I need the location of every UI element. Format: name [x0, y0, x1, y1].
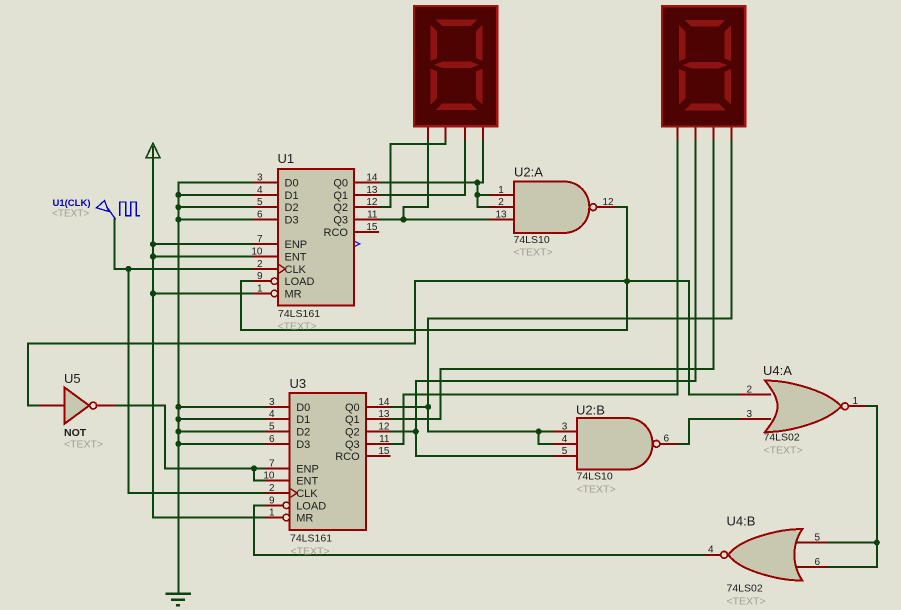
svg-text:11: 11 [379, 434, 390, 445]
svg-text:6: 6 [257, 210, 263, 221]
svg-text:6: 6 [664, 434, 670, 445]
svg-text:NOT: NOT [64, 427, 87, 439]
svg-text:MR: MR [285, 289, 302, 301]
svg-text:Q2: Q2 [333, 202, 348, 214]
svg-text:ENP: ENP [285, 239, 308, 251]
svg-text:2: 2 [269, 483, 275, 494]
svg-text:10: 10 [263, 471, 275, 482]
svg-text:13: 13 [495, 210, 507, 221]
svg-text:Q2: Q2 [345, 427, 360, 439]
svg-text:11: 11 [367, 210, 378, 221]
svg-text:D1: D1 [296, 414, 310, 426]
svg-text:5: 5 [814, 533, 820, 544]
svg-text:<TEXT>: <TEXT> [64, 439, 103, 451]
svg-text:74LS161: 74LS161 [290, 532, 332, 544]
svg-text:U1(CLK): U1(CLK) [53, 198, 91, 209]
svg-text:CLK: CLK [296, 488, 318, 500]
svg-text:4: 4 [269, 409, 275, 420]
svg-text:4: 4 [257, 185, 263, 196]
svg-text:3: 3 [562, 422, 568, 433]
svg-text:3: 3 [269, 397, 275, 408]
svg-text:D2: D2 [296, 427, 310, 439]
svg-text:74LS02: 74LS02 [727, 583, 763, 595]
svg-text:15: 15 [378, 446, 390, 457]
svg-text:12: 12 [378, 422, 390, 433]
svg-text:1: 1 [269, 508, 275, 519]
svg-text:<TEXT>: <TEXT> [278, 321, 317, 333]
svg-text:12: 12 [603, 197, 615, 208]
svg-text:7: 7 [269, 458, 275, 469]
svg-text:U5: U5 [64, 371, 81, 386]
svg-text:3: 3 [746, 409, 752, 420]
svg-text:Q0: Q0 [333, 178, 348, 190]
svg-text:U3: U3 [290, 376, 307, 391]
svg-text:RCO: RCO [335, 451, 360, 463]
svg-text:14: 14 [378, 397, 390, 408]
svg-text:5: 5 [269, 422, 275, 433]
svg-text:12: 12 [366, 197, 378, 208]
svg-text:U2:B: U2:B [576, 403, 605, 418]
svg-text:3: 3 [257, 173, 263, 184]
svg-text:5: 5 [257, 197, 263, 208]
svg-text:Q3: Q3 [333, 215, 348, 227]
svg-text:Q0: Q0 [345, 402, 360, 414]
svg-text:74LS10: 74LS10 [514, 234, 550, 246]
svg-text:D0: D0 [285, 178, 299, 190]
svg-text:<TEXT>: <TEXT> [514, 247, 553, 259]
svg-text:74LS02: 74LS02 [764, 432, 800, 444]
svg-text:13: 13 [378, 409, 390, 420]
svg-text:1: 1 [853, 396, 859, 407]
svg-text:14: 14 [366, 173, 378, 184]
svg-text:2: 2 [746, 384, 752, 395]
svg-text:D3: D3 [296, 439, 310, 451]
svg-text:<TEXT>: <TEXT> [764, 445, 803, 457]
svg-text:D2: D2 [285, 202, 299, 214]
svg-text:1: 1 [257, 284, 263, 295]
svg-text:D3: D3 [285, 215, 299, 227]
svg-text:ENT: ENT [285, 252, 307, 264]
svg-text:6: 6 [814, 557, 820, 568]
svg-text:13: 13 [366, 185, 378, 196]
svg-text:4: 4 [562, 434, 568, 445]
svg-text:2: 2 [498, 197, 504, 208]
svg-text:ENP: ENP [296, 463, 319, 475]
svg-text:6: 6 [269, 434, 275, 445]
svg-text:5: 5 [562, 446, 568, 457]
svg-text:MR: MR [296, 513, 313, 525]
svg-text:ENT: ENT [296, 476, 318, 488]
svg-text:9: 9 [257, 271, 263, 282]
svg-text:<TEXT>: <TEXT> [727, 596, 766, 608]
svg-text:<TEXT>: <TEXT> [291, 546, 330, 558]
svg-text:10: 10 [251, 247, 263, 258]
svg-text:CLK: CLK [285, 264, 307, 276]
svg-text:15: 15 [366, 222, 378, 233]
svg-text:74LS10: 74LS10 [577, 471, 613, 483]
svg-text:LOAD: LOAD [285, 276, 315, 288]
svg-text:1: 1 [498, 185, 504, 196]
svg-text:LOAD: LOAD [296, 500, 326, 512]
svg-text:D1: D1 [285, 190, 299, 202]
svg-text:U4:A: U4:A [763, 363, 792, 378]
svg-text:U1: U1 [278, 151, 295, 166]
svg-text:U2:A: U2:A [514, 165, 543, 180]
svg-text:<TEXT>: <TEXT> [52, 209, 89, 220]
svg-text:U4:B: U4:B [727, 514, 756, 529]
svg-text:Q3: Q3 [345, 439, 360, 451]
svg-text:D0: D0 [296, 402, 310, 414]
svg-text:7: 7 [257, 234, 263, 245]
svg-text:9: 9 [269, 495, 275, 506]
svg-text:74LS161: 74LS161 [278, 308, 320, 320]
svg-text:<TEXT>: <TEXT> [577, 484, 616, 496]
svg-text:4: 4 [708, 545, 714, 556]
svg-text:Q1: Q1 [333, 190, 348, 202]
svg-text:2: 2 [257, 259, 263, 270]
svg-text:RCO: RCO [324, 227, 349, 239]
svg-text:Q1: Q1 [345, 414, 360, 426]
